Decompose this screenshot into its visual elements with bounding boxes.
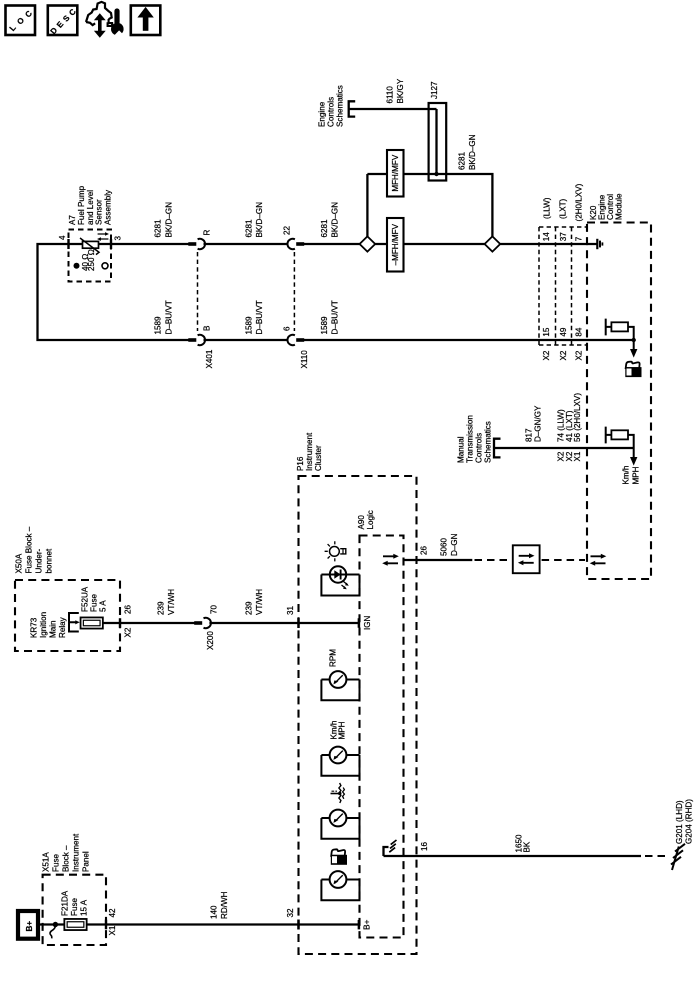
svg-text:Fuse: Fuse — [70, 898, 79, 916]
svg-text:Fuse: Fuse — [52, 854, 61, 872]
svg-text:–MFH/MFV: –MFH/MFV — [391, 223, 400, 265]
svg-text:Cluster: Cluster — [314, 445, 323, 471]
svg-text:Engine: Engine — [318, 101, 327, 127]
svg-text:Schematics: Schematics — [336, 85, 345, 127]
svg-text:(2H0/LXV): (2H0/LXV) — [575, 183, 584, 221]
svg-text:37: 37 — [559, 232, 568, 242]
svg-text:BK/D–GN: BK/D–GN — [255, 202, 264, 238]
svg-text:Logic: Logic — [366, 510, 375, 529]
svg-text:Transmission: Transmission — [466, 415, 475, 463]
svg-text:239: 239 — [157, 601, 166, 615]
svg-text:R: R — [203, 230, 212, 236]
svg-text:X2: X2 — [575, 350, 584, 360]
svg-text:3: 3 — [114, 236, 123, 241]
svg-text:1589: 1589 — [245, 316, 254, 335]
svg-text:X51A: X51A — [42, 852, 51, 872]
svg-text:6: 6 — [282, 326, 291, 331]
svg-text:26: 26 — [420, 545, 429, 555]
svg-text:BK: BK — [523, 841, 532, 852]
svg-text:239: 239 — [245, 601, 254, 615]
svg-text:42: 42 — [108, 908, 117, 918]
svg-text:G204 (RHD): G204 (RHD) — [685, 799, 694, 844]
svg-text:B+: B+ — [363, 919, 372, 929]
svg-text:1589: 1589 — [320, 316, 329, 335]
svg-text:BK/D–GN: BK/D–GN — [468, 134, 477, 170]
svg-text:Instrument: Instrument — [72, 833, 81, 872]
svg-text:Panel: Panel — [82, 851, 91, 872]
svg-text:P16: P16 — [296, 456, 305, 471]
svg-text:Fuel Pump: Fuel Pump — [77, 185, 86, 225]
svg-text:X2: X2 — [542, 350, 551, 360]
svg-text:70: 70 — [210, 604, 219, 614]
svg-text:Ignition: Ignition — [39, 612, 48, 638]
svg-text:BK/D–GN: BK/D–GN — [165, 202, 174, 238]
svg-text:KR73: KR73 — [30, 617, 39, 638]
svg-text:F21DA: F21DA — [61, 890, 70, 916]
svg-text:Controls: Controls — [475, 433, 484, 463]
svg-text:and Level: and Level — [86, 190, 95, 225]
svg-text:Module: Module — [615, 193, 624, 220]
svg-text:16: 16 — [420, 841, 429, 851]
svg-text:X401: X401 — [205, 349, 214, 368]
svg-text:140: 140 — [210, 905, 219, 919]
svg-text:250 Ω: 250 Ω — [87, 249, 96, 271]
svg-text:MFH/MFV: MFH/MFV — [391, 154, 400, 191]
svg-text:J127: J127 — [430, 81, 439, 99]
svg-text:56 (2H0/LXV): 56 (2H0/LXV) — [573, 393, 582, 442]
svg-text:1589: 1589 — [154, 316, 163, 335]
svg-text:D–BU/VT: D–BU/VT — [255, 300, 264, 334]
svg-text:Manual: Manual — [457, 436, 466, 463]
svg-text:RPM: RPM — [328, 649, 337, 667]
svg-text:MPH: MPH — [338, 721, 347, 739]
svg-text:49: 49 — [559, 327, 568, 337]
svg-text:D–BU/VT: D–BU/VT — [331, 300, 340, 334]
svg-text:817: 817 — [525, 428, 534, 442]
svg-text:Sensor: Sensor — [95, 199, 104, 225]
svg-text:32: 32 — [286, 908, 295, 918]
svg-text:D–BU/VT: D–BU/VT — [165, 300, 174, 334]
svg-text:X2: X2 — [124, 627, 133, 637]
svg-text:X1: X1 — [108, 925, 117, 935]
svg-text:VT/WH: VT/WH — [167, 589, 176, 615]
svg-text:B: B — [203, 326, 212, 331]
svg-text:X200: X200 — [206, 631, 215, 650]
svg-text:26: 26 — [124, 604, 133, 614]
svg-text:Fuse Block –: Fuse Block – — [25, 526, 34, 573]
svg-text:BK/GY: BK/GY — [396, 78, 405, 103]
svg-text:(LLW): (LLW) — [543, 197, 552, 219]
svg-text:Km/h: Km/h — [622, 466, 631, 485]
svg-text:6281: 6281 — [154, 219, 163, 238]
svg-text:X110: X110 — [300, 350, 309, 369]
svg-text:BK/D–GN: BK/D–GN — [331, 202, 340, 238]
svg-text:Controls: Controls — [327, 97, 336, 127]
svg-text:X2: X2 — [559, 350, 568, 360]
svg-text:Fuse: Fuse — [90, 594, 99, 612]
svg-text:15: 15 — [542, 327, 551, 337]
svg-text:A90: A90 — [357, 515, 366, 530]
svg-text:6281: 6281 — [245, 219, 254, 238]
svg-text:B+: B+ — [25, 921, 34, 932]
svg-text:Schematics: Schematics — [484, 421, 493, 463]
svg-text:F52UA: F52UA — [81, 586, 90, 612]
svg-text:IGN: IGN — [363, 615, 372, 630]
svg-text:D–GN/GY: D–GN/GY — [534, 405, 543, 442]
svg-text:7: 7 — [575, 236, 584, 241]
svg-text:Instrument: Instrument — [305, 432, 314, 471]
svg-text:Main: Main — [49, 620, 58, 638]
svg-text:(LXT): (LXT) — [559, 198, 568, 219]
svg-text:RD/WH: RD/WH — [220, 891, 229, 919]
svg-text:A7: A7 — [68, 215, 77, 225]
svg-text:bonnet: bonnet — [45, 548, 54, 574]
svg-text:6281: 6281 — [320, 219, 329, 238]
svg-text:15 A: 15 A — [80, 899, 89, 916]
svg-text:5 A: 5 A — [99, 600, 108, 612]
svg-text:Assembly: Assembly — [103, 189, 112, 225]
svg-text:Under-: Under- — [35, 548, 44, 573]
svg-text:X1: X1 — [573, 451, 582, 461]
svg-text:31: 31 — [286, 605, 295, 615]
svg-text:D–GN: D–GN — [450, 533, 459, 556]
svg-text:5060: 5060 — [440, 537, 449, 556]
svg-text:X50A: X50A — [15, 553, 24, 573]
svg-text:Block –: Block – — [62, 845, 71, 872]
svg-text:G201 (LHD): G201 (LHD) — [675, 800, 684, 844]
svg-text:84: 84 — [575, 327, 584, 337]
svg-text:VT/WH: VT/WH — [255, 589, 264, 615]
svg-text:6281: 6281 — [458, 151, 467, 170]
svg-text:22: 22 — [282, 225, 291, 235]
svg-text:14: 14 — [542, 232, 551, 242]
svg-text:Relay: Relay — [58, 616, 67, 638]
svg-text:MPH: MPH — [632, 466, 641, 484]
svg-text:6110: 6110 — [386, 86, 395, 104]
svg-text:4: 4 — [58, 235, 67, 240]
